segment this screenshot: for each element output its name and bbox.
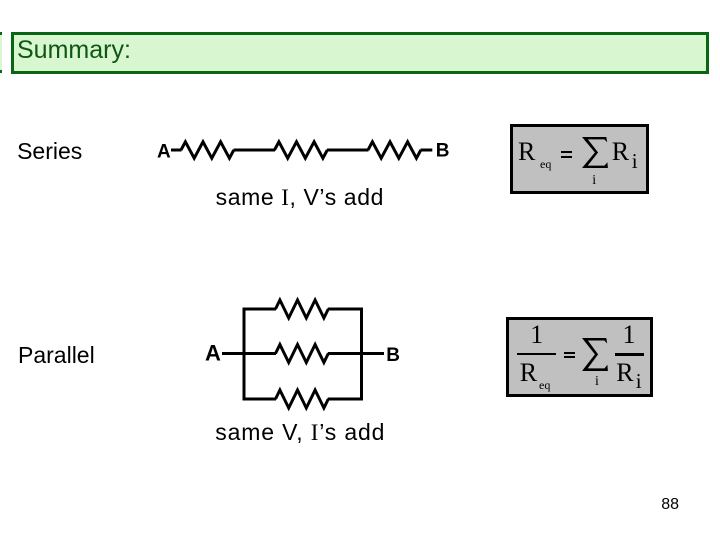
denominator Ri [616,360,633,386]
wire middle to B [328,352,384,355]
caption: same V, I's add [215,421,385,444]
fraction bar (right) [615,353,645,355]
wire bottom-left [243,398,277,401]
wire A to R1 [171,149,182,152]
label Parallel [18,344,95,367]
resistor R5 (parallel middle) [276,345,329,363]
resistor R4 (parallel top) [276,300,329,318]
fraction bar (left) [517,353,556,355]
Req term [518,139,535,165]
index i under sigma [592,174,596,188]
wire R1 to R2 [234,149,276,152]
resistor R3 (series) [368,142,421,158]
resistor R1 (series) [181,142,234,158]
index i under sigma [595,375,599,389]
title box edge sliver at screen left [0,32,2,73]
wire top-right [328,308,363,311]
label Series [17,140,82,163]
numerator 1 (left fraction) [530,322,543,348]
wire R3 to B [421,149,433,152]
title box [11,32,709,74]
svg-text:A: A [205,341,221,366]
equals sign [564,352,575,354]
resistor R2 (series) [275,142,328,158]
formula box: 1/Req = sum 1/Ri [506,317,653,397]
wire R2 to R3 [327,149,369,152]
denominator Req [520,360,537,386]
formula box: Req = sum Ri [510,124,649,194]
svg-text:B: B [386,345,400,366]
summation sigma [582,338,609,372]
page number [661,497,679,513]
right rail [360,308,363,401]
wire top-left [243,308,277,311]
Ri term [612,139,629,165]
resistor R6 (parallel bottom) [276,390,329,408]
wire A to left rail [222,352,276,355]
caption: same I, V's add [216,186,384,209]
wire bottom-right [328,398,363,401]
title text "Summary:" [17,38,131,63]
equals sign [561,151,572,153]
summation sigma [582,137,609,169]
left rail [243,308,246,401]
numerator 1 (right fraction) [623,322,636,348]
